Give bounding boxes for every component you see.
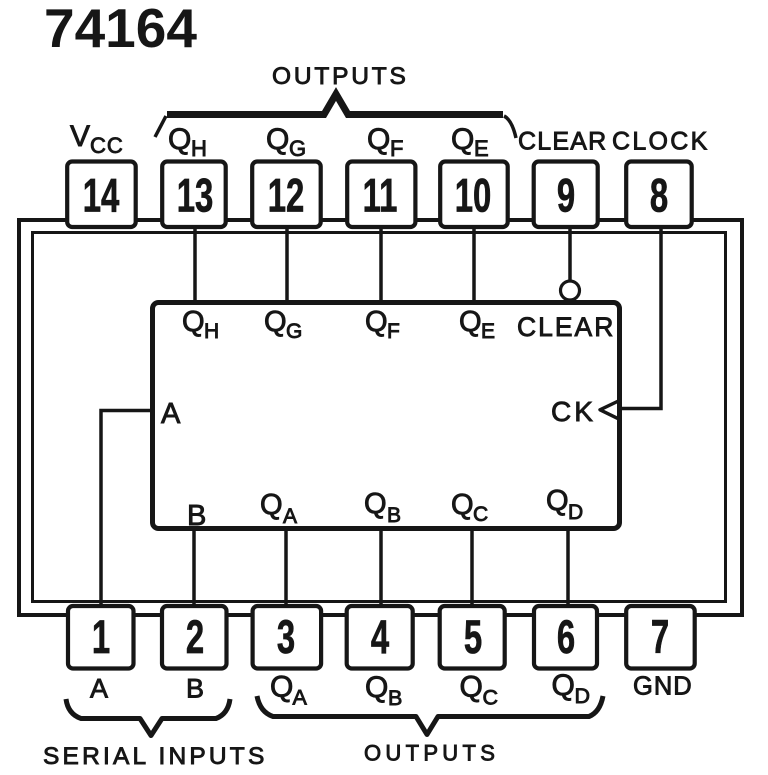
pin 9 box — [534, 162, 598, 228]
block label QB — [364, 488, 401, 527]
wire pin 11 to QF — [379, 226, 383, 303]
wire pin 9 to CLEAR bubble — [568, 226, 572, 280]
svg-text:G: G — [286, 320, 302, 343]
svg-text:G: G — [289, 136, 306, 161]
pin label QF (top) — [367, 123, 403, 161]
svg-text:Q: Q — [451, 489, 474, 521]
block label QE — [459, 306, 495, 343]
svg-text:CC: CC — [90, 133, 124, 158]
pin label QE (top) — [451, 123, 489, 161]
svg-text:B: B — [187, 500, 206, 532]
pin label QH (top) — [168, 123, 207, 161]
brace OUTPUTS (pins 3-6) — [257, 696, 603, 735]
svg-text:Q: Q — [364, 488, 387, 520]
pin 10 box — [440, 162, 508, 228]
svg-text:13: 13 — [177, 169, 214, 222]
svg-text:CLEAR: CLEAR — [517, 312, 615, 342]
svg-text:B: B — [387, 504, 401, 527]
CK edge-trigger arrow — [600, 400, 621, 420]
svg-text:10: 10 — [455, 169, 492, 222]
svg-text:Q: Q — [365, 671, 388, 704]
svg-text:Q: Q — [460, 671, 483, 704]
svg-text:OUTPUTS: OUTPUTS — [364, 741, 499, 766]
wire pin 10 to QE — [472, 226, 476, 303]
wire pin 1 to A — [101, 411, 152, 606]
pin 8 box — [626, 162, 692, 228]
svg-text:12: 12 — [268, 169, 305, 222]
pin label QA (bottom) — [270, 671, 308, 710]
svg-text:3: 3 — [277, 610, 295, 663]
svg-text:CLEAR: CLEAR — [518, 128, 607, 156]
wire pin 4 to QB — [379, 529, 383, 606]
pin 7 box — [626, 606, 695, 669]
svg-text:6: 6 — [557, 610, 575, 663]
IC package outline (inner) — [33, 233, 726, 602]
pin 12 box — [252, 162, 321, 228]
pin label QD (bottom) — [552, 669, 591, 708]
svg-text:OUTPUTS: OUTPUTS — [272, 63, 409, 90]
svg-text:CLOCK: CLOCK — [612, 128, 710, 156]
brace top OUTPUTS (pins 13-10) — [155, 94, 516, 138]
svg-text:A: A — [90, 674, 108, 704]
IC package outline (outer) — [19, 220, 742, 615]
block label QD — [546, 485, 583, 524]
svg-text:Q: Q — [182, 306, 205, 338]
svg-text:A: A — [161, 398, 181, 430]
pin 3 box — [253, 606, 322, 669]
CLEAR bubble (inverter circle on pin 9 net) — [561, 281, 580, 300]
svg-text:H: H — [191, 136, 207, 161]
block label QF — [365, 306, 400, 343]
svg-text:A: A — [283, 505, 297, 528]
block label QG — [264, 306, 302, 343]
svg-text:E: E — [474, 136, 489, 161]
svg-text:8: 8 — [650, 169, 668, 222]
svg-text:Q: Q — [367, 123, 390, 156]
pin 5 box — [440, 606, 505, 669]
svg-text:11: 11 — [363, 169, 398, 222]
shift register block U1 — [153, 303, 620, 529]
svg-text:Q: Q — [552, 669, 575, 702]
pin 6 box — [534, 606, 597, 669]
pin label QC (bottom) — [460, 671, 499, 710]
pin 1 box — [68, 606, 134, 669]
wire pin 2 to B — [192, 529, 196, 606]
svg-text:74164: 74164 — [44, 0, 197, 59]
svg-text:Q: Q — [546, 485, 569, 517]
svg-text:7: 7 — [651, 610, 669, 663]
brace SERIAL INPUTS (pins 1-2) — [66, 699, 230, 736]
pin 13 box — [162, 162, 226, 228]
svg-text:CK: CK — [551, 396, 596, 427]
svg-text:GND: GND — [633, 673, 693, 701]
svg-text:1: 1 — [92, 610, 110, 663]
pin 11 box — [347, 162, 415, 228]
svg-text:F: F — [387, 320, 400, 343]
svg-text:B: B — [388, 686, 402, 710]
svg-text:V: V — [70, 120, 90, 153]
svg-text:14: 14 — [83, 169, 120, 222]
svg-text:2: 2 — [186, 610, 204, 663]
svg-text:4: 4 — [371, 610, 390, 663]
block label QC — [451, 489, 488, 526]
svg-text:C: C — [473, 503, 488, 526]
svg-text:Q: Q — [266, 123, 289, 156]
wire pin 12 to QG — [285, 226, 289, 303]
pin label QG (top) — [266, 123, 306, 161]
wire pin 8 to CK arrow — [622, 226, 661, 409]
pin 4 box — [347, 606, 413, 669]
svg-text:Q: Q — [168, 123, 191, 156]
svg-text:H: H — [204, 320, 219, 343]
svg-text:SERIAL INPUTS: SERIAL INPUTS — [43, 743, 268, 770]
wire pin 13 to QH — [193, 226, 197, 303]
block label QH — [182, 306, 219, 343]
block label QA — [260, 489, 297, 528]
svg-text:Q: Q — [260, 489, 283, 521]
svg-text:D: D — [575, 684, 591, 708]
svg-text:Q: Q — [264, 306, 287, 338]
svg-text:F: F — [390, 136, 403, 161]
svg-text:C: C — [483, 686, 499, 710]
pin 14 box — [67, 162, 136, 228]
svg-text:E: E — [481, 320, 495, 343]
svg-text:Q: Q — [270, 671, 293, 704]
svg-text:B: B — [186, 674, 204, 704]
pin label VCC — [70, 120, 124, 158]
wire pin 3 to QA — [284, 529, 288, 606]
pin 2 box — [162, 606, 227, 669]
svg-text:A: A — [293, 686, 308, 710]
svg-text:Q: Q — [451, 123, 474, 156]
wire pin 6 to QD — [566, 529, 570, 606]
svg-text:5: 5 — [464, 610, 482, 663]
wire pin 5 to QC — [470, 529, 474, 606]
svg-text:Q: Q — [365, 306, 388, 338]
pin label QB (bottom) — [365, 671, 402, 710]
svg-text:Q: Q — [459, 306, 482, 338]
svg-text:9: 9 — [557, 169, 575, 222]
svg-text:D: D — [568, 501, 583, 524]
